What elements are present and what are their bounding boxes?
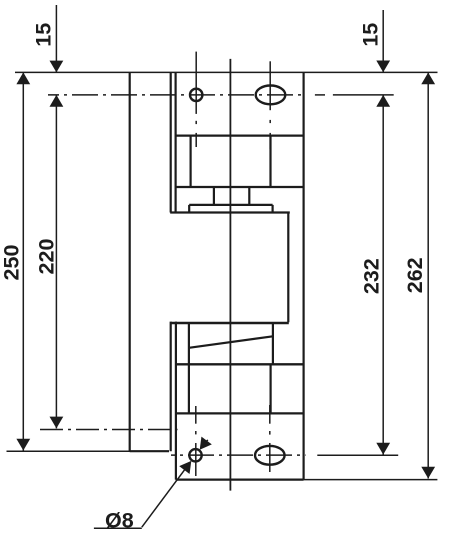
centerline top slot vertical dot <box>269 120 271 123</box>
centerline top slot vertical dash <box>269 133 271 149</box>
svg-text:15: 15 <box>359 23 383 47</box>
top plate bottom line <box>176 135 304 137</box>
pedestal left vertical <box>188 205 190 213</box>
extension line bottom right (262) <box>304 479 438 481</box>
leader arrowhead lower <box>179 457 196 474</box>
svg-text:232: 232 <box>359 258 383 294</box>
body bottom edge <box>176 479 304 481</box>
dim line 220 <box>55 95 57 429</box>
upper section bottom line <box>176 186 304 188</box>
lower box right vertical <box>270 365 272 413</box>
lower section divider line <box>176 363 304 365</box>
extension line bottom holes centerline (232) <box>317 454 398 456</box>
neck left vertical <box>213 187 215 205</box>
centerline top holes horizontal dash right <box>315 94 325 96</box>
left leaf right edge upper <box>170 72 172 212</box>
extension line top edge <box>15 71 438 73</box>
hinge pin axis vertical <box>229 59 231 491</box>
dim line 250 <box>22 72 24 450</box>
dim line 262 <box>427 73 429 479</box>
centerline top circle vertical <box>195 52 197 114</box>
pedestal top line <box>189 204 272 206</box>
barrel top line <box>170 211 290 213</box>
pedestal right vertical <box>272 205 274 213</box>
centerline top holes horizontal <box>48 94 306 96</box>
arrowhead 262 bottom <box>421 467 435 479</box>
arrowhead 232 bottom <box>376 443 390 455</box>
neck right vertical <box>248 187 250 205</box>
lower knuckle right vertical <box>272 324 274 365</box>
svg-text:Ø8: Ø8 <box>105 509 134 533</box>
arrowhead 262 top <box>421 73 435 85</box>
lower section inner left vertical <box>188 323 190 414</box>
left leaf left edge <box>129 72 131 451</box>
barrel right edge <box>287 213 289 323</box>
arrowhead 250 top <box>16 72 30 84</box>
centerline bottom leaf horizontal <box>40 429 178 431</box>
body left edge upper <box>175 72 177 212</box>
extension line bottom left (250) <box>7 450 170 452</box>
dim line 15 right <box>382 10 384 72</box>
centerline bottom holes horizontal <box>171 454 306 456</box>
centerline top circle vertical dot <box>195 121 197 124</box>
barrel bottom line <box>171 322 289 325</box>
leader line diameter 8 lower segment <box>142 468 186 527</box>
body left edge lower <box>175 322 177 480</box>
leader line diameter 8 upper tail <box>203 440 208 446</box>
bottom plate top line <box>176 412 304 414</box>
left leaf bottom edge <box>130 450 169 452</box>
upper section inner left vertical <box>190 136 192 187</box>
centerline bottom slot vertical <box>269 443 271 472</box>
arrowhead 232 top <box>376 95 390 107</box>
upper section inner right vertical <box>269 136 271 187</box>
body right edge <box>303 72 305 479</box>
centerline bottom slot vertical dash <box>269 405 271 424</box>
centerline bottom slot vertical dot <box>269 431 271 435</box>
top circle hole <box>190 89 202 101</box>
leader arrowhead upper <box>195 437 212 454</box>
centerline top circle vertical dash <box>195 133 197 147</box>
svg-text:15: 15 <box>32 23 56 47</box>
svg-text:250: 250 <box>0 245 24 281</box>
extension line top holes centerline right <box>333 94 394 96</box>
dim line 232 <box>382 95 384 455</box>
arrowhead 15 left down <box>50 61 64 73</box>
centerline bottom circle vertical dash <box>195 406 197 424</box>
arrowhead 220 bottom <box>50 417 64 429</box>
centerline top slot vertical <box>269 61 271 110</box>
centerline bottom circle vertical <box>195 443 197 476</box>
arrowhead 15 right down <box>376 61 390 73</box>
arrowhead 220 top <box>50 95 64 107</box>
top slot hole <box>256 86 286 105</box>
arrowhead 250 bottom <box>16 439 30 451</box>
diagonal line <box>189 336 273 348</box>
leader underline diameter 8 <box>94 527 142 529</box>
bottom circle hole <box>189 449 201 461</box>
dim line 15 left <box>55 5 57 72</box>
bottom slot hole <box>255 446 285 465</box>
centerline bottom circle vertical dot <box>195 431 197 434</box>
svg-text:262: 262 <box>403 257 427 293</box>
svg-text:220: 220 <box>34 239 58 275</box>
left leaf right edge lower <box>170 322 172 452</box>
